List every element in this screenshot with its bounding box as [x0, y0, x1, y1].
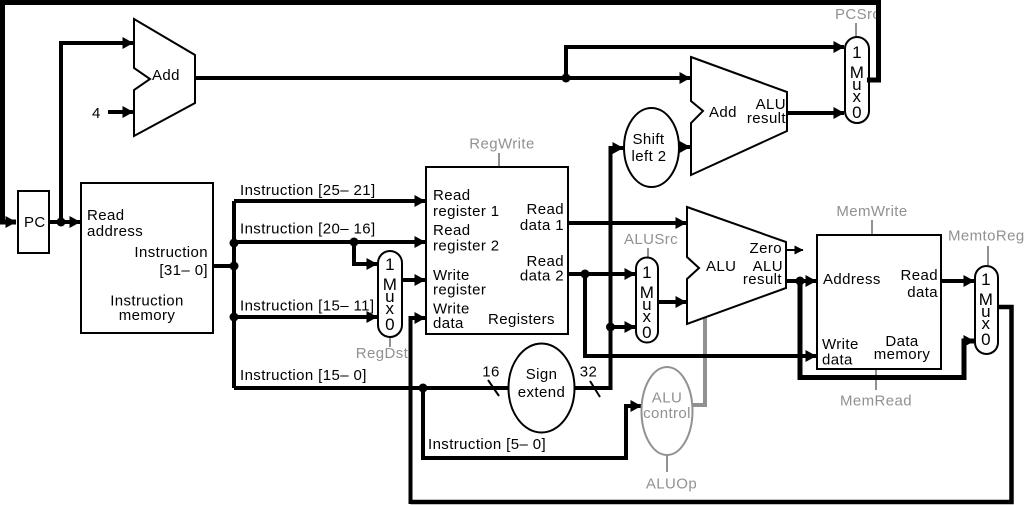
svg-text:ALUOp: ALUOp: [646, 476, 697, 493]
tick: MemRead: [875, 370, 877, 390]
wire: branch Add ALU result to PCSrc mux input 0: [787, 111, 844, 115]
svg-text:PCSrc: PCSrc: [835, 6, 880, 23]
wire: write-back riser to Registers write data: [411, 318, 426, 504]
svg-text:Read: Read: [527, 201, 564, 218]
svg-text:result: result: [743, 271, 783, 288]
svg-text:register: register: [433, 282, 486, 299]
mux RegDst: [378, 251, 402, 337]
svg-text:data 1: data 1: [520, 217, 564, 234]
svg-text:0: 0: [642, 323, 652, 342]
svg-text:Instruction [20– 16]: Instruction [20– 16]: [240, 221, 376, 238]
svg-text:0: 0: [385, 315, 395, 334]
svg-text:MemtoReg: MemtoReg: [948, 228, 1024, 245]
registers: [426, 167, 568, 334]
svg-text:extend: extend: [518, 384, 565, 401]
junction: bus to 15-11: [230, 313, 239, 322]
svg-text:Registers: Registers: [488, 311, 555, 328]
junction: PC+4: [562, 74, 571, 83]
svg-text:address: address: [87, 223, 143, 240]
svg-text:Add: Add: [152, 67, 180, 84]
svg-text:PC: PC: [24, 214, 46, 231]
svg-text:Read: Read: [87, 207, 124, 224]
mux MemtoReg: [975, 266, 998, 354]
tick: ALUSrc: [647, 248, 649, 258]
svg-text:Read: Read: [901, 267, 938, 284]
svg-text:1: 1: [385, 255, 395, 274]
gray control labels: [356, 6, 1024, 493]
svg-text:ALU: ALU: [652, 390, 682, 407]
tick: RegWrite: [498, 153, 500, 166]
svg-text:1: 1: [852, 43, 862, 62]
svg-text:Read: Read: [433, 187, 470, 204]
tick: RegDst: [389, 338, 391, 347]
junction: ALU result branch: [796, 277, 805, 286]
mux texts: [383, 43, 994, 349]
svg-text:4: 4: [92, 105, 101, 122]
svg-text:0: 0: [852, 103, 862, 122]
adder Add (branch): [691, 57, 787, 175]
wire: instruction bus vertical: [232, 201, 236, 388]
mux ALUSrc: [636, 258, 658, 343]
svg-text:Write: Write: [822, 336, 859, 353]
shift left 2: [624, 108, 679, 187]
tick: MemtoReg: [987, 246, 989, 265]
gray control ticks and ALU control wire: [390, 23, 988, 472]
wire: Instruction [5-0] to ALU control: [423, 388, 641, 458]
wire: constant 4 to Add: [108, 110, 133, 114]
svg-text:32: 32: [580, 364, 598, 381]
junction: 15-0 branch: [419, 384, 428, 393]
wire: sign extend output up to shift left 2: [575, 148, 623, 388]
ALU control unit: [642, 367, 693, 455]
svg-text:RegWrite: RegWrite: [469, 136, 534, 153]
wire: PC output branch up to Add input: [61, 43, 133, 222]
wire: RegDst mux output to Write register: [402, 278, 425, 282]
wire: PC output to instruction memory read address: [49, 220, 80, 224]
svg-text:data: data: [822, 352, 853, 369]
svg-text:Address: Address: [823, 271, 881, 288]
data memory: [817, 235, 941, 369]
svg-text:Read: Read: [433, 222, 470, 239]
adder Add (PC+4): [134, 19, 195, 136]
junction: 20-16 branch: [350, 238, 359, 247]
svg-text:control: control: [643, 405, 691, 422]
svg-text:data: data: [907, 284, 938, 301]
wire: Read data 2 to ALUSrc mux input 1: [568, 272, 635, 276]
sign extend: [509, 344, 575, 433]
wire: Add output (PC+4): [195, 76, 690, 80]
svg-text:Instruction: Instruction: [134, 244, 208, 261]
wire: data memory read data to MemtoReg mux input 1: [941, 279, 974, 283]
svg-text:data 2: data 2: [520, 268, 564, 285]
svg-text:Shift: Shift: [632, 131, 664, 148]
wire: shift left 2 output to branch Add: [679, 145, 690, 149]
svg-text:ALUSrc: ALUSrc: [624, 231, 678, 248]
register PC: [18, 191, 49, 253]
wire: ALUSrc mux output to ALU: [658, 300, 686, 304]
svg-text:16: 16: [482, 364, 500, 381]
svg-text:MemWrite: MemWrite: [836, 203, 907, 220]
svg-text:Instruction [5– 0]: Instruction [5– 0]: [428, 436, 546, 453]
svg-text:memory: memory: [874, 346, 931, 363]
svg-text:memory: memory: [119, 307, 176, 324]
svg-text:1: 1: [981, 270, 991, 289]
wire: instruction memory output to bus: [213, 264, 234, 268]
bit-width slash 16: [488, 380, 499, 396]
ALU main: [687, 207, 786, 324]
svg-text:0: 0: [981, 330, 991, 349]
svg-text:register 1: register 1: [433, 203, 500, 220]
junction: instruction out: [230, 262, 239, 271]
svg-text:register 2: register 2: [433, 238, 500, 255]
wire: ALU Zero output: [786, 249, 803, 251]
svg-text:1: 1: [642, 263, 652, 282]
svg-text:Instruction [25– 21]: Instruction [25– 21]: [240, 182, 376, 199]
svg-text:Instruction [15– 0]: Instruction [15– 0]: [240, 367, 367, 384]
wire: Instruction [25-21] to Read register 1: [234, 199, 425, 203]
svg-text:Sign: Sign: [526, 366, 558, 383]
wire: MemtoReg mux output around bottom to Write data: [411, 307, 1012, 502]
wire: ALU result to data memory address: [786, 279, 816, 283]
tick: MemWrite: [871, 220, 873, 234]
bit-width slash 32: [590, 381, 600, 397]
wire: ALU control to ALU operation input: [691, 317, 705, 405]
wire: PCSrc mux output feedback to PC: [3, 3, 879, 223]
mux PCSrc: [845, 37, 869, 123]
wire: Instruction [20-16] to Read register 2: [234, 240, 425, 244]
svg-text:ALU: ALU: [706, 258, 736, 275]
svg-text:RegDst: RegDst: [356, 345, 409, 362]
wire: 20-16 branch to RegDst mux input 1: [354, 242, 377, 264]
wire: sign extend branch to ALUSrc mux input 0: [611, 325, 636, 329]
wire: Read data 1 to ALU: [568, 221, 686, 225]
tick: PCSrc: [855, 23, 857, 36]
junction: bus to 25-21: [230, 239, 239, 248]
svg-text:data: data: [433, 315, 464, 332]
svg-text:[31– 0]: [31– 0]: [159, 262, 208, 279]
wire: Instruction [15-11] to RegDst mux input 0: [234, 315, 377, 319]
wire: read data 2 branch to data memory write data: [585, 274, 816, 356]
svg-text:MemRead: MemRead: [840, 393, 912, 410]
junction: sign extend out branch: [606, 323, 615, 332]
svg-text:Zero: Zero: [750, 240, 782, 257]
junction: PC output: [57, 218, 66, 227]
svg-text:left 2: left 2: [632, 148, 667, 165]
svg-text:result: result: [747, 110, 787, 127]
instruction memory: [81, 183, 213, 333]
wire: ALU result around data memory to MemtoReg mux input 0: [800, 281, 974, 378]
wire: PC+4 branch to PCSrc mux input 1: [566, 47, 844, 78]
svg-text:Instruction [15– 11]: Instruction [15– 11]: [240, 298, 374, 315]
junction: read data 2 branch: [581, 270, 590, 279]
wire: Instruction [15-0] to sign extend: [234, 386, 509, 390]
svg-text:Add: Add: [709, 104, 737, 121]
tick: ALUOp: [666, 456, 668, 472]
